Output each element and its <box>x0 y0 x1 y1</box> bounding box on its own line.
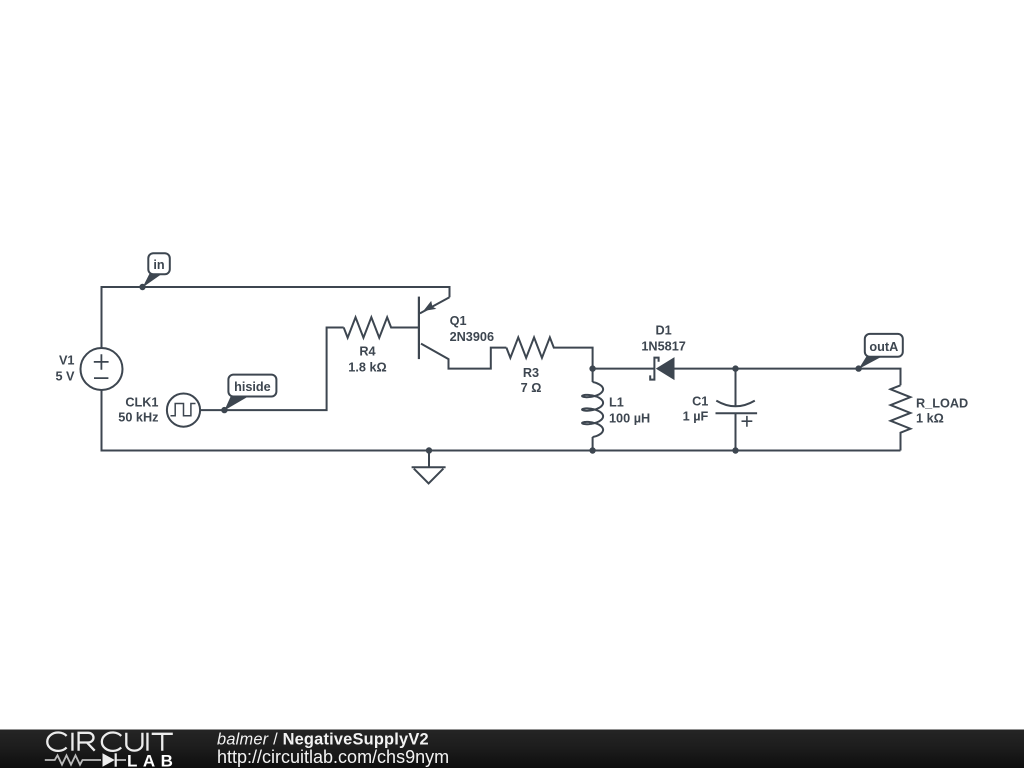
svg-text:2N3906: 2N3906 <box>450 330 494 344</box>
svg-text:1N5817: 1N5817 <box>641 340 685 354</box>
svg-text:100 µH: 100 µH <box>609 412 650 426</box>
svg-text:D1: D1 <box>655 324 671 338</box>
svg-text:1 kΩ: 1 kΩ <box>916 412 944 426</box>
svg-text:R_LOAD: R_LOAD <box>916 397 968 411</box>
svg-text:http://circuitlab.com/chs9nym: http://circuitlab.com/chs9nym <box>217 747 449 767</box>
svg-text:hiside: hiside <box>234 380 271 394</box>
svg-text:Q1: Q1 <box>450 314 467 328</box>
svg-text:1 µF: 1 µF <box>683 409 709 423</box>
svg-text:LAB: LAB <box>127 751 178 768</box>
svg-text:5 V: 5 V <box>55 370 75 384</box>
svg-text:in: in <box>153 258 164 272</box>
svg-text:50 kHz: 50 kHz <box>118 411 158 425</box>
svg-text:V1: V1 <box>59 353 75 367</box>
svg-text:C1: C1 <box>692 394 708 408</box>
svg-text:1.8 kΩ: 1.8 kΩ <box>348 361 386 375</box>
svg-text:CLK1: CLK1 <box>125 396 158 410</box>
svg-text:7 Ω: 7 Ω <box>521 381 542 395</box>
svg-text:R3: R3 <box>523 366 539 380</box>
svg-text:outA: outA <box>869 340 898 354</box>
svg-text:R4: R4 <box>359 344 375 358</box>
svg-text:L1: L1 <box>609 395 624 409</box>
